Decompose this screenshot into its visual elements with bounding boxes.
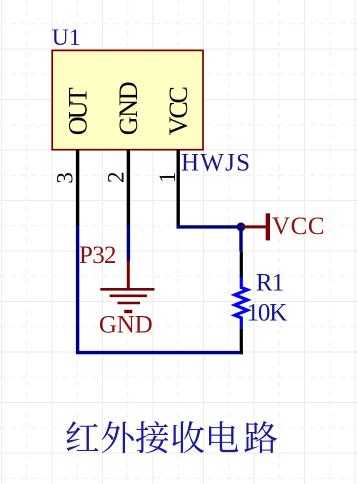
wire: OUT pin down to bottom bus and across to resistor (net P32)	[78, 225, 243, 352]
svg-text:HWJS: HWJS	[181, 149, 250, 176]
pin 1 wire of U1 (VCC)	[176, 150, 179, 226]
svg-text:OUT: OUT	[63, 87, 92, 135]
pin 3 wire of U1 (OUT)	[76, 150, 79, 226]
svg-text:GND: GND	[114, 82, 143, 136]
IC U1 body (infrared receiver part outline)	[52, 50, 203, 149]
svg-text:P32: P32	[79, 242, 117, 269]
resistor R1 bottom pin	[240, 329, 243, 355]
power symbol VCC (bar)	[242, 213, 270, 240]
ground symbol GND	[100, 261, 154, 312]
svg-text:2: 2	[104, 172, 129, 184]
svg-text:VCC: VCC	[272, 213, 325, 240]
svg-text:U1: U1	[52, 25, 81, 51]
svg-text:GND: GND	[99, 311, 153, 338]
wire: GND pin down to ground symbol	[127, 225, 130, 261]
pin 2 wire of U1 (GND)	[127, 150, 130, 226]
svg-text:VCC: VCC	[164, 86, 193, 135]
svg-text:R1: R1	[256, 269, 284, 296]
svg-text:10K: 10K	[247, 300, 288, 327]
svg-text:1: 1	[155, 172, 180, 184]
junction dot at VCC node	[237, 223, 246, 232]
wire: VCC pin down and right to resistor top / VCC rail (net HWJS)	[178, 225, 241, 251]
resistor R1 zigzag body	[235, 277, 248, 329]
resistor R1 top pin	[240, 251, 243, 278]
svg-text:3: 3	[52, 172, 77, 184]
schematic title text 红外接收电路 (infrared receiver circuit)	[66, 421, 277, 453]
